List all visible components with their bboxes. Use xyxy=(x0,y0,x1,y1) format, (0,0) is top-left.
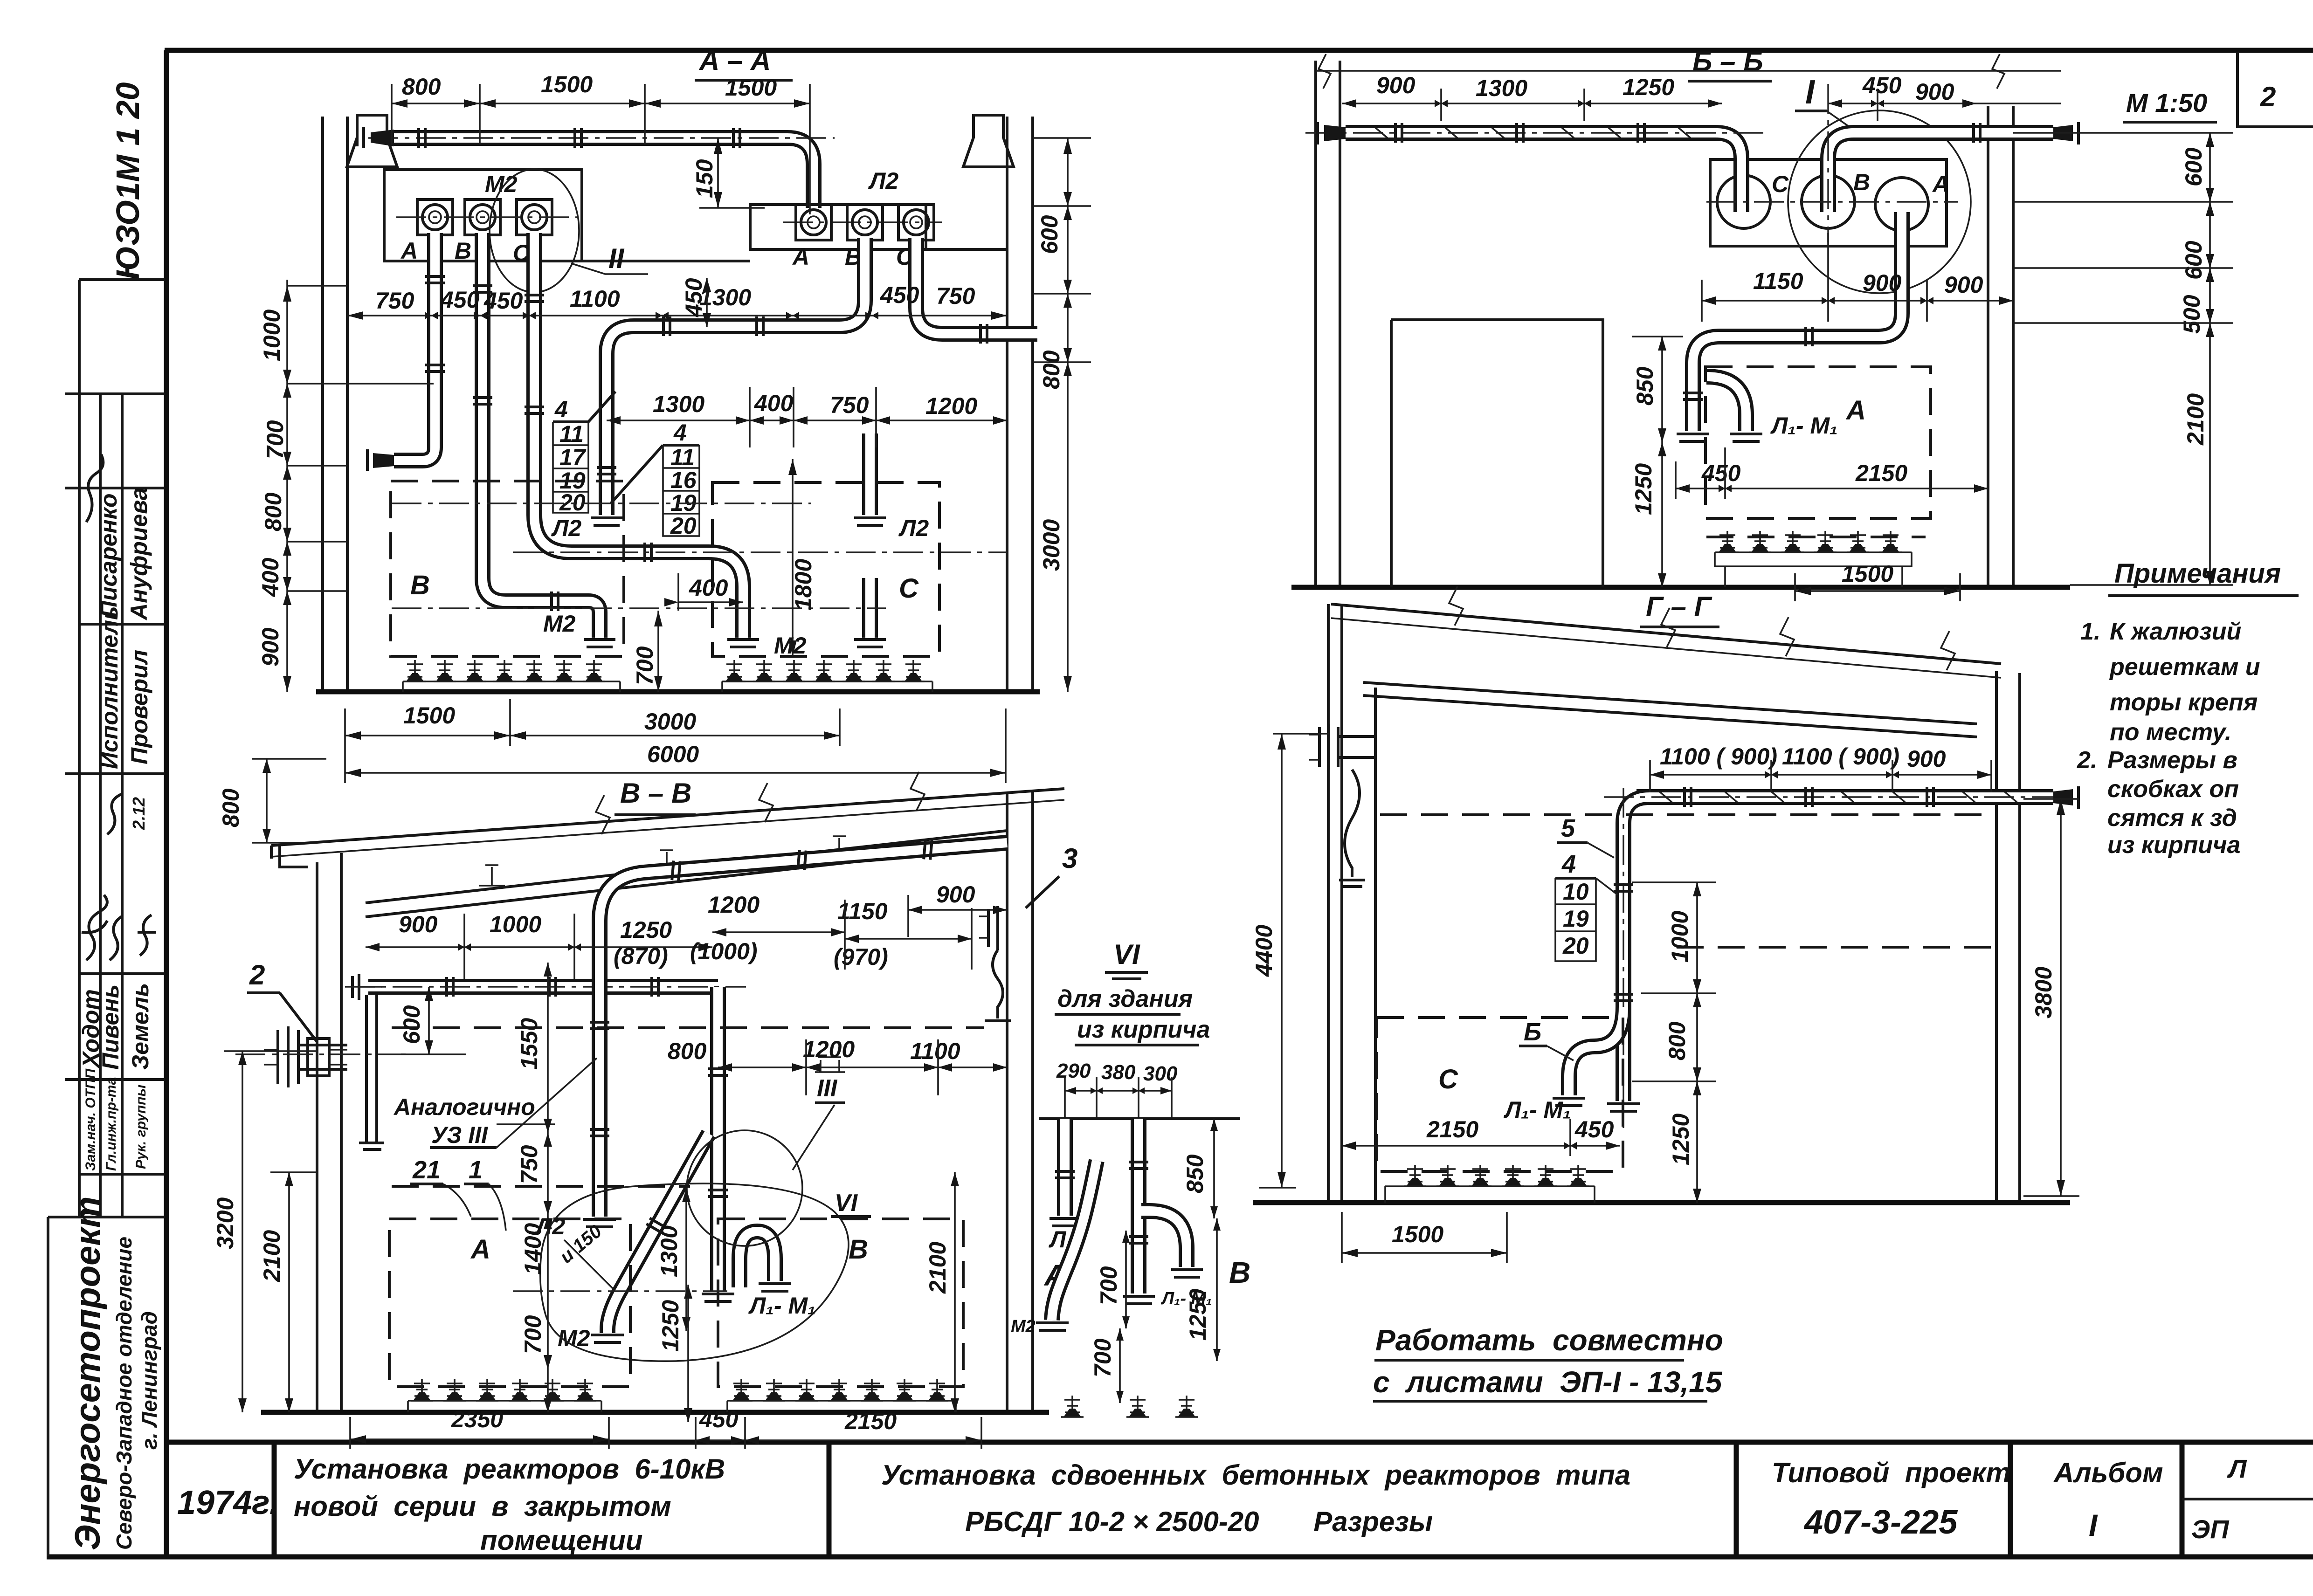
flange on diagonal xyxy=(646,1218,666,1233)
svg-text:6000: 6000 xyxy=(647,741,699,767)
svg-text:300: 300 xyxy=(1143,1062,1178,1085)
svg-text:1: 1 xyxy=(469,1156,483,1184)
roof rib T marks xyxy=(479,836,852,886)
svg-text:Л₁- М₁: Л₁- М₁ xyxy=(748,1293,816,1319)
U bend right xyxy=(1141,1211,1187,1267)
dim 3200 vertical left xyxy=(212,1051,317,1412)
svg-text:900: 900 xyxy=(1863,270,1902,296)
hole circle A xyxy=(1875,178,1928,231)
bushing A left xyxy=(417,199,453,235)
flange xyxy=(980,324,987,344)
wall taper right end xyxy=(2053,125,2073,141)
right wall xyxy=(1988,106,2013,587)
dash-dot centerlines horizontal xyxy=(392,503,1007,608)
stub into circle B xyxy=(1828,186,1829,212)
svg-text:750: 750 xyxy=(936,283,975,309)
busbar flanges xyxy=(1395,123,1402,143)
dim 2100 vertical right xyxy=(925,1172,959,1412)
wall break zigzag top-left xyxy=(1319,54,1331,89)
dim 450 vertical mid xyxy=(681,278,711,327)
svg-text:Исполнитель: Исполнитель xyxy=(97,606,123,769)
upper-left niche box xyxy=(384,170,582,261)
end flange L2 xyxy=(583,1219,616,1227)
upper-right niche box xyxy=(750,205,926,249)
dim 1550 vertical xyxy=(516,963,552,1133)
roof slab lines xyxy=(1331,604,2001,664)
phase A pipe xyxy=(1693,212,1902,431)
svg-text:с листами ЭП-I - 13,15: с листами ЭП-I - 13,15 xyxy=(1373,1365,1723,1399)
svg-text:1300: 1300 xyxy=(653,391,704,417)
sidebar tick top xyxy=(65,280,165,394)
centerline busbar xyxy=(1604,788,2070,1128)
svg-text:М2: М2 xyxy=(543,611,576,637)
signature table lines xyxy=(65,488,165,1174)
svg-text:1250: 1250 xyxy=(1630,463,1657,515)
svg-text:2.: 2. xyxy=(2077,747,2097,774)
pipe B end flange xyxy=(584,640,615,647)
ceiling segment right xyxy=(926,248,1007,251)
svg-text:700: 700 xyxy=(1096,1266,1122,1305)
org block frame xyxy=(48,1217,165,1556)
svg-text:2100: 2100 xyxy=(259,1230,285,1282)
dashed reactor box B xyxy=(391,481,624,656)
pipe from right bushing B down-left xyxy=(607,238,865,515)
floor line xyxy=(316,689,1040,695)
frame top line xyxy=(165,48,2313,53)
dim 600 small xyxy=(399,987,466,1054)
svg-text:750: 750 xyxy=(375,288,414,314)
right pipe xyxy=(1138,1119,1139,1293)
busbar bundle marks xyxy=(1375,128,1970,138)
svg-text:Б – Б: Б – Б xyxy=(1692,46,1763,77)
svg-text:17: 17 xyxy=(559,444,587,470)
svg-text:150: 150 xyxy=(691,159,718,198)
U end flange xyxy=(1730,434,1762,441)
top dims 1100(900) 1100(900) 900 xyxy=(1650,743,1991,792)
svg-text:по месту.: по месту. xyxy=(2110,719,2231,746)
svg-text:2150: 2150 xyxy=(844,1408,897,1434)
svg-text:1400: 1400 xyxy=(520,1223,546,1275)
svg-text:700: 700 xyxy=(520,1315,546,1354)
svg-text:II: II xyxy=(608,243,625,274)
VI region oval xyxy=(540,1183,849,1361)
svg-text:1300: 1300 xyxy=(1476,75,1527,101)
svg-text:А – А: А – А xyxy=(698,45,771,76)
roof left overhang xyxy=(271,845,308,867)
wall taper right xyxy=(2053,789,2073,805)
svg-text:г. Ленинград: г. Ленинград xyxy=(137,1311,161,1450)
busbar 2 right xyxy=(1828,133,2053,186)
pipe A xyxy=(394,233,435,461)
svg-text:450: 450 xyxy=(1862,72,1902,98)
svg-text:1550: 1550 xyxy=(516,1018,542,1070)
svg-text:1000: 1000 xyxy=(1667,911,1693,963)
svg-text:М2: М2 xyxy=(485,171,518,197)
svg-text:1500: 1500 xyxy=(403,702,455,729)
svg-text:600: 600 xyxy=(1036,215,1063,254)
svg-text:2150: 2150 xyxy=(1855,460,1907,486)
sheet corner box xyxy=(2237,52,2313,127)
detail circle I xyxy=(1788,110,1971,293)
flanges on vertical xyxy=(708,1069,728,1075)
vertical pipe from run down xyxy=(718,987,718,1291)
top structure lines xyxy=(1039,1117,1240,1120)
dashed box A xyxy=(1705,367,1931,518)
center dash-dot lines xyxy=(235,987,727,1291)
svg-text:В: В xyxy=(849,1234,868,1265)
bus centerline xyxy=(368,137,835,138)
flanges xyxy=(1806,327,1812,346)
pipe right bushing C to wall xyxy=(916,238,1037,334)
label 4 and table xyxy=(1555,850,1618,961)
svg-text:800: 800 xyxy=(1038,350,1064,389)
svg-text:19: 19 xyxy=(1563,906,1589,932)
left wall xyxy=(323,117,347,692)
ceiling segment left xyxy=(347,165,384,168)
insulator row B xyxy=(727,1379,956,1412)
busbar flanges xyxy=(1685,787,1691,807)
svg-text:3800: 3800 xyxy=(2030,967,2057,1018)
svg-text:21: 21 xyxy=(412,1156,441,1184)
svg-text:(1000): (1000) xyxy=(690,938,758,964)
right dim chain xyxy=(1033,138,1091,692)
top thin line xyxy=(1316,70,2061,72)
dim 4400 xyxy=(1251,734,1329,1188)
door opening rect xyxy=(1391,320,1603,587)
svg-text:Установка сдвоенных бетонных: Установка сдвоенных бетонных реакторов т… xyxy=(881,1459,1630,1491)
svg-text:Рук. группы: Рук. группы xyxy=(133,1085,149,1169)
svg-text:Примечания: Примечания xyxy=(2114,558,2281,589)
dim row top: 900 1000 1250(870) xyxy=(366,911,712,979)
svg-text:Гл.инж.пр-та: Гл.инж.пр-та xyxy=(104,1077,119,1171)
flanges xyxy=(757,316,763,336)
svg-text:700: 700 xyxy=(1090,1338,1116,1377)
svg-text:1200: 1200 xyxy=(803,1036,855,1062)
svg-text:900: 900 xyxy=(257,627,283,667)
svg-text:Размеры в: Размеры в xyxy=(2107,747,2237,774)
svg-text:2100: 2100 xyxy=(2182,393,2209,446)
diagonal pipe to M2 xyxy=(608,1134,709,1333)
svg-text:помещении: помещении xyxy=(480,1525,643,1556)
dashed horizontal lines xyxy=(1380,815,1995,947)
svg-text:600: 600 xyxy=(2181,147,2207,186)
dim 1250 xyxy=(1185,1218,1221,1361)
svg-text:850: 850 xyxy=(1182,1154,1208,1193)
svg-text:16: 16 xyxy=(670,467,697,493)
svg-text:1000: 1000 xyxy=(490,911,541,937)
svg-text:400: 400 xyxy=(689,575,728,601)
label III with symbol xyxy=(793,1057,845,1170)
svg-text:800: 800 xyxy=(668,1038,707,1064)
dim 1500 xyxy=(1342,1212,1507,1263)
svg-text:2: 2 xyxy=(249,959,265,991)
dim 1250 vertical xyxy=(657,1285,692,1422)
flange marks xyxy=(447,977,453,997)
svg-text:торы крепя: торы крепя xyxy=(2110,689,2258,716)
frame left line xyxy=(164,50,169,1556)
end flange xyxy=(1677,434,1709,441)
svg-text:I: I xyxy=(2089,1508,2098,1542)
bus wall taper xyxy=(371,130,394,146)
svg-text:2150: 2150 xyxy=(1426,1116,1478,1142)
svg-text:5: 5 xyxy=(1561,814,1575,842)
insulator row xyxy=(1385,1165,1595,1203)
svg-text:1250: 1250 xyxy=(1623,74,1674,100)
dims 290 380 300 xyxy=(1056,1059,1178,1119)
svg-text:М 1:50: М 1:50 xyxy=(2126,88,2207,117)
svg-text:450: 450 xyxy=(483,288,523,314)
dashed box C xyxy=(1377,1018,1623,1171)
svg-text:ЭП: ЭП xyxy=(2191,1514,2230,1544)
svg-text:750: 750 xyxy=(516,1145,542,1184)
busbar horizontal xyxy=(1636,797,2053,798)
svg-text:2: 2 xyxy=(2260,81,2276,112)
svg-text:600: 600 xyxy=(2181,241,2207,280)
flange at wall xyxy=(1974,123,1980,143)
svg-text:450: 450 xyxy=(681,278,707,317)
svg-text:В: В xyxy=(455,238,471,264)
floor xyxy=(1253,1200,2070,1205)
dim 2100 vertical left xyxy=(259,1172,317,1412)
busbar centerline xyxy=(1305,132,1767,133)
dim row 800 1200 1100 xyxy=(668,1036,1007,1095)
dim 3800 xyxy=(2023,799,2079,1196)
svg-text:400: 400 xyxy=(257,557,283,597)
dim row top 900 1300 1250 450 900 xyxy=(1342,72,2061,121)
svg-text:900: 900 xyxy=(1376,72,1415,98)
svg-text:В – В: В – В xyxy=(620,777,691,809)
svg-text:А: А xyxy=(470,1234,490,1265)
pipe B xyxy=(483,233,600,638)
svg-text:10: 10 xyxy=(1563,879,1589,905)
svg-text:800: 800 xyxy=(218,788,244,827)
svg-text:VI: VI xyxy=(1113,939,1140,970)
svg-text:Б: Б xyxy=(1524,1018,1541,1046)
svg-text:450: 450 xyxy=(1701,460,1741,486)
svg-text:2.12: 2.12 xyxy=(129,797,148,830)
dim row 2 xyxy=(347,282,1007,320)
dim row top right: 1200(1000) 1150(970) 900 xyxy=(690,881,1007,970)
svg-text:ЮЗО1М 1 20: ЮЗО1М 1 20 xyxy=(110,82,146,280)
M2 end flange xyxy=(591,1335,624,1342)
svg-text:4: 4 xyxy=(673,420,687,446)
svg-text:900: 900 xyxy=(399,911,438,937)
left column xyxy=(317,853,341,1412)
left wall xyxy=(1328,604,1375,1203)
small insulator marks bottom xyxy=(1061,1396,1084,1417)
right bushing A xyxy=(796,205,831,240)
svg-text:1250: 1250 xyxy=(1185,1289,1211,1341)
svg-text:УЗ III: УЗ III xyxy=(431,1122,488,1148)
U jumper xyxy=(1569,1007,1623,1095)
title block dividers xyxy=(274,1442,2182,1556)
svg-text:Л₁- М₁: Л₁- М₁ xyxy=(1504,1097,1571,1123)
svg-text:скобках оп: скобках оп xyxy=(2107,776,2239,803)
svg-text:400: 400 xyxy=(754,390,794,416)
pipe support stand xyxy=(359,995,384,1149)
svg-text:Пивень: Пивень xyxy=(97,984,124,1070)
left wall xyxy=(1316,61,1340,587)
svg-text:800: 800 xyxy=(260,492,286,531)
svg-text:1500: 1500 xyxy=(725,75,777,101)
svg-text:С: С xyxy=(899,573,919,604)
bottom dims 1500 3000 xyxy=(345,699,840,746)
svg-text:4400: 4400 xyxy=(1251,925,1277,977)
svg-text:из кирпича: из кирпича xyxy=(2107,832,2240,859)
svg-text:Земель: Земель xyxy=(127,983,153,1070)
svg-text:III: III xyxy=(817,1075,838,1102)
dashed reactor box C xyxy=(712,482,939,656)
pipe B flanges xyxy=(473,286,492,292)
svg-text:3200: 3200 xyxy=(212,1197,238,1249)
sidebar outer line xyxy=(78,280,81,1217)
roof break zigzags xyxy=(1449,586,1955,670)
svg-text:4: 4 xyxy=(1561,850,1576,878)
pipe bottom flange xyxy=(1607,1104,1640,1111)
svg-text:новой серии в закрытом: новой серии в закрытом xyxy=(294,1491,671,1522)
dim 150 vertical xyxy=(691,138,765,208)
dim 400 at C pipe xyxy=(664,573,743,611)
svg-text:2350: 2350 xyxy=(451,1406,503,1432)
svg-text:380: 380 xyxy=(1101,1061,1136,1084)
ceiling segment middle xyxy=(582,260,750,262)
bushing B left xyxy=(465,199,500,235)
svg-text:1500: 1500 xyxy=(541,71,593,97)
stub flange xyxy=(854,518,886,525)
insulator row C xyxy=(722,660,932,692)
bottom dim 6000 xyxy=(345,709,1006,783)
svg-text:Л₁- М₁: Л₁- М₁ xyxy=(1770,413,1838,439)
wall bushing top-left xyxy=(1309,724,1374,887)
svg-text:Писаренко: Писаренко xyxy=(96,493,122,618)
insulator row A xyxy=(408,1379,601,1412)
svg-text:А: А xyxy=(792,244,809,270)
svg-text:Л2: Л2 xyxy=(868,168,898,194)
svg-text:1250: 1250 xyxy=(620,917,672,943)
svg-text:600: 600 xyxy=(399,1005,425,1044)
stub into circle C xyxy=(1741,186,1742,212)
U jumper xyxy=(1706,377,1746,431)
wall bushing item 2 xyxy=(264,1026,347,1087)
svg-text:1200: 1200 xyxy=(708,892,759,918)
svg-text:из кирпича: из кирпича xyxy=(1077,1016,1210,1043)
end flange xyxy=(702,1294,734,1301)
L2 stub right of C box xyxy=(870,433,870,515)
svg-text:1250: 1250 xyxy=(1668,1114,1694,1165)
hole circle B xyxy=(1802,175,1855,228)
svg-text:Северо-Западное отделение: Северо-Западное отделение xyxy=(112,1237,136,1550)
svg-text:для здания: для здания xyxy=(1057,985,1193,1012)
signatures squiggles xyxy=(86,454,103,522)
dim 1500 bottom xyxy=(1795,561,1960,601)
svg-text:А: А xyxy=(400,238,418,264)
svg-text:Л2: Л2 xyxy=(551,515,581,541)
svg-text:Зам.нач. ОТПП: Зам.нач. ОТПП xyxy=(83,1068,98,1171)
dim 1250 vertical xyxy=(1630,442,1666,587)
flanges on slope pipe xyxy=(672,860,680,881)
svg-text:А: А xyxy=(1845,395,1866,426)
dim 700 vertical xyxy=(520,1315,552,1412)
hole circle C xyxy=(1717,175,1770,228)
svg-text:450: 450 xyxy=(880,282,919,308)
mid dims 1150 900 900 xyxy=(1702,233,2013,322)
svg-text:1100 ( 900): 1100 ( 900) xyxy=(1660,743,1777,770)
busbar 1 left xyxy=(1346,133,1741,186)
right dim chain 600 600 500 2100 xyxy=(2013,133,2233,585)
dim 1400 vertical xyxy=(520,1215,552,1369)
svg-text:290: 290 xyxy=(1056,1059,1091,1082)
svg-text:450: 450 xyxy=(699,1406,739,1432)
svg-text:3: 3 xyxy=(1062,843,1077,874)
svg-text:С: С xyxy=(1772,171,1789,197)
U jumper xyxy=(739,1231,775,1287)
svg-text:2100: 2100 xyxy=(925,1242,951,1294)
bus flanges xyxy=(419,128,425,148)
wall break zigzag top-right xyxy=(1992,54,2004,89)
svg-text:3000: 3000 xyxy=(644,709,696,735)
svg-text:сятся к зд: сятся к зд xyxy=(2107,805,2237,832)
frame bottom line xyxy=(47,1555,2313,1560)
svg-text:Л2: Л2 xyxy=(898,515,929,541)
dashed mid lines xyxy=(392,1028,984,1186)
top bus pipe xyxy=(391,138,814,208)
svg-text:1100 ( 900): 1100 ( 900) xyxy=(1782,743,1899,770)
svg-text:VI: VI xyxy=(835,1190,858,1217)
svg-text:1100: 1100 xyxy=(910,1038,960,1064)
busbar left elbow down xyxy=(1623,797,1650,1101)
svg-text:1300: 1300 xyxy=(656,1225,682,1277)
svg-text:Проверил: Проверил xyxy=(126,650,152,764)
svg-text:407-3-225: 407-3-225 xyxy=(1803,1504,1958,1541)
svg-text:4: 4 xyxy=(554,396,568,422)
left pipe xyxy=(1064,1119,1065,1216)
right wall xyxy=(1996,671,2020,1203)
centerline circles xyxy=(1706,84,1958,242)
detail oval II xyxy=(490,169,579,292)
pipe A flanges xyxy=(425,276,445,283)
svg-text:1000: 1000 xyxy=(259,310,285,361)
svg-text:I: I xyxy=(1805,74,1816,111)
horizontal pipe run xyxy=(368,986,718,987)
stub flange xyxy=(854,640,886,647)
svg-text:500: 500 xyxy=(2179,295,2205,334)
dashed box B xyxy=(718,1219,963,1387)
dim row top: 800 1500 1500 xyxy=(392,71,810,214)
svg-text:450: 450 xyxy=(440,287,480,313)
dim 1300 vertical xyxy=(656,1188,690,1331)
bushing C left xyxy=(517,199,552,235)
busbar bundle marks xyxy=(1660,792,2017,802)
dim 1800 vertical xyxy=(788,459,816,656)
left dim chain xyxy=(257,280,434,692)
dim row 3: 1300 400 750 1200 xyxy=(607,387,1007,447)
title block top line xyxy=(165,1440,2313,1445)
svg-text:Альбом: Альбом xyxy=(2053,1457,2163,1488)
dims 2150 450 xyxy=(1342,1116,1620,1156)
detail circle III xyxy=(687,1130,802,1246)
bottom dims 450 2150 xyxy=(1676,447,1988,499)
roof beam xyxy=(1363,682,1977,737)
svg-text:900: 900 xyxy=(936,881,975,908)
svg-text:800: 800 xyxy=(1664,1021,1690,1060)
svg-text:Г – Г: Г – Г xyxy=(1646,591,1713,622)
L2 stub end flange xyxy=(591,518,622,525)
roof break zigzags xyxy=(596,772,925,834)
roof support right xyxy=(963,115,1014,167)
floor line xyxy=(261,1410,1049,1415)
bottom dims 2350 450 2150 xyxy=(350,1406,981,1449)
U end flange xyxy=(759,1284,791,1291)
